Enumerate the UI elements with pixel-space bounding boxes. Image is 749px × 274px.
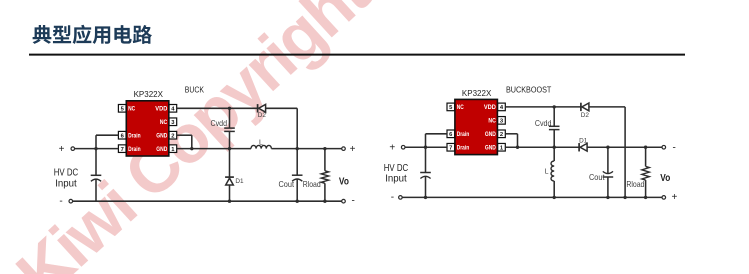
svg-text:L: L [259,139,263,146]
capacitor Cvdd (left) [224,127,235,129]
node: Vo- terminal (left) [342,199,346,203]
title 典型应用电路 [33,25,152,44]
diode D1 (right) [578,143,580,151]
wire: VDD line (right) [505,106,581,108]
svg-text:-: - [352,196,355,207]
junction cin bottom (right) [424,196,427,199]
svg-text:Cout: Cout [589,173,605,182]
U2 pin 3 box [498,117,506,125]
svg-text:GND: GND [156,147,168,153]
U2 pin 5 box [447,103,455,111]
diode D1 (left freewheel) [229,149,231,177]
svg-text:D1: D1 [579,137,588,144]
svg-text:KP322X: KP322X [134,89,164,99]
op-amp U1: IC body KP322X [126,101,169,156]
U1 pin 2 box [169,131,177,139]
inductor L (left) [251,145,271,148]
svg-text:Drain: Drain [457,145,470,151]
svg-text:7: 7 [121,147,124,153]
U2 pin 7 box [447,143,455,151]
wire: + terminal to pin 7 (right) [405,146,447,148]
resistor Rload (left) [324,149,326,171]
junction Rload top [323,147,326,150]
junction L top (right) [553,146,556,149]
svg-text:Drain: Drain [128,133,141,139]
title underline [29,54,685,56]
wire: pin 6 elbow (right) [426,133,448,135]
svg-text:-: - [673,142,676,153]
svg-text:NC: NC [128,107,136,113]
svg-text:Cvdd: Cvdd [535,119,552,128]
capacitor Cin (left input cap) [91,174,102,176]
U1 pin 6 box [118,131,126,139]
U1 pin 5 box [118,105,126,113]
wire: D1 to output (right) [587,146,662,148]
svg-text:Drain: Drain [457,132,470,138]
svg-text:Cout: Cout [279,180,295,189]
junction Cvdd top [228,107,231,110]
junction Cout top (right) [606,146,609,149]
wire: bottom rail (left) [73,200,342,202]
svg-text:HV DC: HV DC [384,163,409,174]
svg-text:VDD: VDD [484,105,497,111]
node: Vo- terminal (right, top) [662,145,666,149]
svg-text:2: 2 [171,133,174,139]
wire: Cvdd vertical [229,108,231,128]
wire: D2 to Cout node [266,107,298,109]
svg-text:-: - [59,196,62,207]
wire: main rail to D1 (right) [505,146,579,148]
junction Rload top (right) [644,146,647,149]
wire: pin 2 elbow down to rail [177,134,192,136]
U1 pin 4 box [169,105,177,113]
U2 pin 4 box [498,103,506,111]
svg-text:2: 2 [500,132,503,138]
U2 pin 2 box [498,130,506,138]
svg-text:KP322X: KP322X [462,88,492,98]
wire: VDD line pin4 right [177,107,258,109]
resistor Rload (right) [645,147,647,166]
U1 pin 3 box [169,118,177,126]
svg-text:VDD: VDD [155,107,168,113]
svg-text:HV DC: HV DC [54,168,79,179]
svg-text:Rload: Rload [303,180,321,189]
junction output node [296,147,299,150]
node: Vo+ terminal (left) [342,147,346,151]
wire: pin 2 elbow (right) [505,133,517,135]
junction input node [94,147,97,150]
inductor L (right) [553,147,555,161]
svg-text:-: - [391,192,394,203]
wire: L to output [271,148,341,150]
svg-text:Rload: Rload [626,180,644,189]
junction Cvdd top (right) [553,105,556,108]
svg-text:+: + [389,143,395,154]
svg-text:Input: Input [385,174,407,185]
svg-text:Vo: Vo [660,173,670,184]
U2 pin 6 box [447,130,455,138]
svg-text:+: + [671,192,677,203]
U1 pin 1 box [169,145,177,153]
svg-text:7: 7 [449,145,452,151]
capacitor Cout (left) [296,149,298,176]
junction Cvdd/D1 node [228,147,231,150]
capacitor Cin (right input cap) [420,172,431,174]
svg-text:Input: Input [55,179,77,190]
svg-text:GND: GND [485,146,497,152]
svg-text:Cvdd: Cvdd [211,119,228,128]
svg-text:+: + [350,144,356,155]
wire: main rail (left) [177,148,251,150]
diode D2 (left) [257,104,259,112]
svg-text:BUCKBOOST: BUCKBOOST [506,85,551,94]
svg-text:D1: D1 [235,178,244,185]
svg-text:GND: GND [156,133,168,139]
svg-text:NC: NC [457,105,465,111]
svg-text:NC: NC [160,120,168,126]
wire: D2 to bottom rail [589,106,625,108]
svg-text:Drain: Drain [128,147,141,153]
capacitor Cout (right, inverted) [607,147,609,173]
U2 pin 1 box [498,143,506,151]
diode D2 (right) [580,103,582,111]
svg-text:D2: D2 [258,112,267,119]
op-amp U2: IC body KP322X [455,99,498,154]
svg-text:L: L [545,169,549,176]
node: Vo+ terminal (right, bottom) [662,196,666,200]
wire: + terminal to pin 7 [75,148,119,150]
svg-text:D2: D2 [581,112,590,119]
svg-text:BUCK: BUCK [185,85,205,94]
svg-text:+: + [59,144,65,155]
svg-text:Vo: Vo [339,177,349,188]
wire: pin 6 elbow [96,134,118,136]
svg-text:GND: GND [485,132,497,138]
wire: bottom rail (right) [402,196,662,198]
U1 pin 7 box [118,145,126,153]
capacitor Cvdd (right) [553,107,555,127]
svg-text:NC: NC [488,119,496,125]
junction input node (right) [424,146,427,149]
